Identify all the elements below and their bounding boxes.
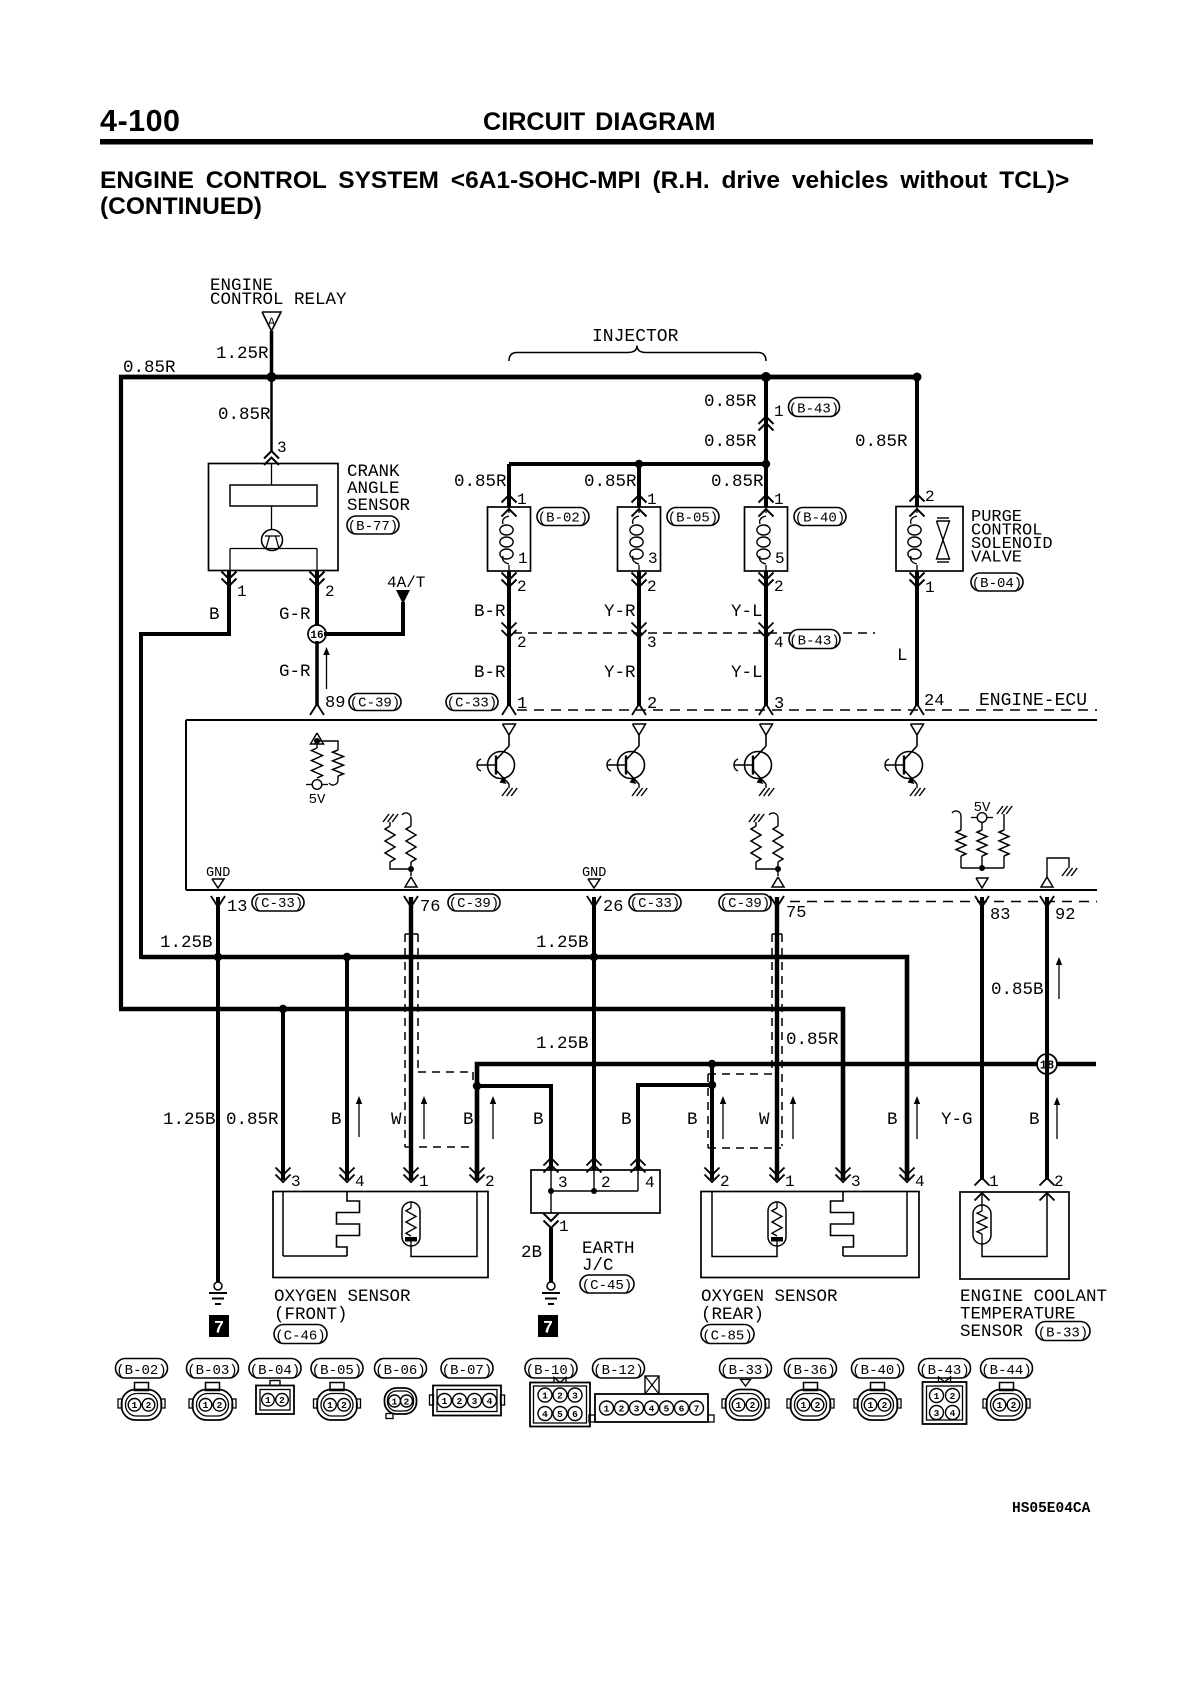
heater element rear bbox=[831, 1192, 854, 1256]
svg-text:6: 6 bbox=[572, 1409, 578, 1420]
svg-text:(CONTINUED): (CONTINUED) bbox=[100, 193, 262, 220]
svg-text:1: 1 bbox=[736, 1400, 742, 1411]
connector label (B-40) bbox=[794, 508, 846, 526]
svg-text:CIRCUIT DIAGRAM: CIRCUIT DIAGRAM bbox=[483, 108, 715, 136]
svg-text:(B-33): (B-33) bbox=[1038, 1325, 1088, 1341]
svg-text:B: B bbox=[621, 1110, 632, 1130]
svg-text:2: 2 bbox=[619, 1403, 625, 1414]
svg-text:13: 13 bbox=[227, 898, 247, 917]
svg-text:0.85B: 0.85B bbox=[991, 980, 1044, 1000]
svg-text:2: 2 bbox=[485, 1173, 495, 1191]
node 16 bbox=[308, 625, 326, 643]
svg-text:(B-04): (B-04) bbox=[972, 576, 1022, 592]
svg-text:0.85R: 0.85R bbox=[226, 1110, 279, 1130]
svg-text:ENGINE CONTROL SYSTEM <6A1-SOH: ENGINE CONTROL SYSTEM <6A1-SOHC-MPI (R.H… bbox=[100, 167, 1069, 194]
svg-text:1: 1 bbox=[265, 1395, 271, 1406]
svg-text:1: 1 bbox=[934, 1391, 940, 1402]
svg-text:26: 26 bbox=[603, 898, 623, 917]
ENGINE-ECU box bbox=[517, 709, 1097, 711]
svg-text:(B-06): (B-06) bbox=[375, 1363, 425, 1379]
svg-text:(B-10): (B-10) bbox=[526, 1363, 576, 1379]
wire B-R injector 1 to ECU bbox=[507, 571, 511, 706]
svg-text:B: B bbox=[209, 605, 220, 625]
svg-text:4: 4 bbox=[950, 1408, 956, 1419]
svg-text:16: 16 bbox=[310, 630, 323, 642]
svg-text:3: 3 bbox=[558, 1174, 568, 1192]
svg-text:2: 2 bbox=[341, 1400, 347, 1411]
ECU output transistor at pin x=509 bbox=[503, 724, 516, 735]
svg-text:5: 5 bbox=[664, 1403, 670, 1414]
svg-text:1: 1 bbox=[868, 1400, 874, 1411]
ECU output transistor at pin x=766 bbox=[760, 724, 773, 735]
svg-text:B-R: B-R bbox=[474, 663, 506, 683]
header rule bbox=[100, 139, 1093, 145]
wire 0.85R injector feed bbox=[761, 372, 771, 382]
crank sensor pin 1 bbox=[222, 572, 237, 580]
svg-text:3: 3 bbox=[851, 1173, 861, 1191]
connector label (B-05) bbox=[667, 508, 719, 526]
svg-text:1: 1 bbox=[132, 1400, 138, 1411]
svg-text:(B-40): (B-40) bbox=[852, 1363, 902, 1379]
engine coolant temperature sensor box B-33 bbox=[960, 1192, 1069, 1279]
svg-text:89: 89 bbox=[325, 694, 345, 713]
svg-text:0.85R: 0.85R bbox=[123, 358, 176, 378]
svg-text:4: 4 bbox=[487, 1396, 493, 1407]
svg-text:3: 3 bbox=[277, 439, 287, 457]
connector label C-33 bbox=[446, 694, 498, 711]
wire 0.85R to crank angle sensor bbox=[270, 377, 273, 452]
svg-text:2: 2 bbox=[647, 695, 657, 714]
svg-text:1: 1 bbox=[801, 1400, 807, 1411]
wire to 4A/T bbox=[324, 602, 403, 634]
svg-text:1.25B: 1.25B bbox=[160, 933, 213, 953]
svg-text:B-R: B-R bbox=[474, 602, 506, 622]
svg-text:(C-39): (C-39) bbox=[350, 695, 400, 711]
svg-text:(B-03): (B-03) bbox=[187, 1363, 237, 1379]
svg-text:24: 24 bbox=[924, 692, 944, 711]
svg-text:4: 4 bbox=[542, 1409, 548, 1420]
svg-text:7: 7 bbox=[543, 1318, 552, 1337]
svg-text:CONTROL RELAY: CONTROL RELAY bbox=[210, 290, 347, 310]
ECU pin 26 bbox=[587, 896, 594, 907]
wire B rear O2 pin 2 sensor ground bbox=[710, 1064, 714, 1180]
svg-text:5V: 5V bbox=[974, 800, 991, 816]
wire 0.85R top bus bbox=[119, 375, 917, 380]
svg-text:5V: 5V bbox=[309, 792, 326, 808]
svg-text:1: 1 bbox=[442, 1396, 448, 1407]
svg-text:1: 1 bbox=[774, 403, 784, 421]
wire B front O2 pin 2 sensor ground bbox=[475, 1064, 479, 1180]
svg-text:1.25B: 1.25B bbox=[536, 1034, 589, 1054]
svg-text:2: 2 bbox=[647, 578, 657, 596]
svg-text:(B-02): (B-02) bbox=[538, 510, 588, 526]
connector B-07 bbox=[441, 1359, 493, 1379]
svg-text:2: 2 bbox=[457, 1396, 463, 1407]
svg-text:3: 3 bbox=[572, 1390, 578, 1401]
purge valve symbol bbox=[937, 517, 949, 519]
svg-text:Y-L: Y-L bbox=[731, 602, 763, 622]
svg-text:0.85R: 0.85R bbox=[711, 472, 764, 492]
svg-text:(REAR): (REAR) bbox=[701, 1305, 764, 1325]
svg-text:6: 6 bbox=[679, 1403, 685, 1414]
svg-text:1: 1 bbox=[517, 695, 527, 714]
svg-text:3: 3 bbox=[472, 1396, 478, 1407]
connector label B-77 bbox=[347, 516, 399, 534]
svg-text:4: 4 bbox=[915, 1173, 925, 1191]
svg-text:0.85R: 0.85R bbox=[218, 405, 271, 425]
svg-text:2: 2 bbox=[404, 1396, 410, 1407]
injector 2 bbox=[637, 464, 641, 507]
svg-text:3: 3 bbox=[634, 1403, 640, 1414]
svg-text:75: 75 bbox=[786, 904, 806, 923]
thermistor cell bbox=[981, 1192, 983, 1205]
svg-text:(C-33): (C-33) bbox=[253, 896, 303, 912]
svg-text:B: B bbox=[533, 1110, 544, 1130]
svg-text:2: 2 bbox=[1011, 1400, 1017, 1411]
svg-text:(B-44): (B-44) bbox=[981, 1363, 1031, 1379]
svg-text:0.85R: 0.85R bbox=[454, 472, 507, 492]
svg-text:VALVE: VALVE bbox=[971, 549, 1022, 568]
earth joint connector C-45 bbox=[531, 1170, 660, 1213]
shield dashes rear O2 bbox=[781, 934, 783, 1146]
svg-text:G-R: G-R bbox=[279, 662, 311, 682]
svg-text:1: 1 bbox=[392, 1396, 398, 1407]
ECU pin 76 bbox=[404, 896, 411, 907]
connector B-43 bbox=[919, 1359, 971, 1379]
ECU pin 89 input circuit with 5V pull-up bbox=[311, 733, 324, 744]
svg-text:OXYGEN SENSOR: OXYGEN SENSOR bbox=[701, 1287, 838, 1307]
svg-text:1: 1 bbox=[542, 1390, 548, 1401]
connector B-36 bbox=[785, 1359, 837, 1379]
wire G-R crank pin2 bbox=[315, 571, 319, 627]
crank sensor pin 2 bbox=[310, 572, 325, 580]
svg-text:1.25B: 1.25B bbox=[163, 1110, 216, 1130]
svg-text:2: 2 bbox=[325, 583, 335, 601]
svg-text:HS05E04CA: HS05E04CA bbox=[1012, 1501, 1091, 1517]
svg-text:B: B bbox=[331, 1110, 342, 1130]
svg-text:3: 3 bbox=[647, 634, 657, 652]
svg-text:Y-L: Y-L bbox=[731, 663, 763, 683]
svg-text:(B-43): (B-43) bbox=[919, 1363, 969, 1379]
svg-text:(C-33): (C-33) bbox=[630, 896, 680, 912]
svg-text:0.85R: 0.85R bbox=[855, 432, 908, 452]
svg-text:7: 7 bbox=[694, 1403, 700, 1414]
connector B-33 bbox=[720, 1359, 772, 1379]
svg-text:92: 92 bbox=[1055, 906, 1075, 925]
svg-text:(B-43): (B-43) bbox=[789, 633, 839, 649]
svg-text:B: B bbox=[687, 1110, 698, 1130]
svg-text:4: 4 bbox=[774, 634, 784, 652]
svg-text:(B-05): (B-05) bbox=[668, 510, 718, 526]
ground (pin13 1.25B) bbox=[214, 1282, 222, 1290]
svg-text:1.25R: 1.25R bbox=[216, 344, 269, 364]
svg-text:2: 2 bbox=[720, 1173, 730, 1191]
heater element front bbox=[282, 1192, 284, 1257]
svg-text:1: 1 bbox=[419, 1173, 429, 1191]
ECU output transistor at pin x=639 bbox=[633, 724, 646, 735]
svg-text:83: 83 bbox=[990, 906, 1010, 925]
wire 2B earth J/C to ground bbox=[549, 1228, 553, 1282]
engine control relay terminal A bbox=[262, 312, 281, 331]
svg-text:3: 3 bbox=[774, 695, 784, 714]
wire 0.85R purge valve feed bbox=[915, 375, 919, 507]
svg-text:1: 1 bbox=[203, 1400, 209, 1411]
svg-text:B: B bbox=[463, 1110, 474, 1130]
wire 1.25B pin26 to earth J/C pin 2 bbox=[592, 897, 596, 1170]
wire 1.25B pin13 to ground bbox=[216, 897, 220, 1282]
wire B to earth J/C pin 4 bbox=[638, 1085, 712, 1170]
svg-text:1: 1 bbox=[989, 1173, 999, 1191]
svg-text:(C-39): (C-39) bbox=[720, 896, 770, 912]
svg-text:2: 2 bbox=[882, 1400, 888, 1411]
injector brace bbox=[509, 346, 766, 362]
svg-text:J/C: J/C bbox=[582, 1256, 614, 1276]
svg-text:2: 2 bbox=[146, 1400, 152, 1411]
connector B-06 bbox=[375, 1359, 427, 1379]
wire B to earth J/C pin 3 bbox=[477, 1086, 551, 1170]
svg-text:2: 2 bbox=[950, 1391, 956, 1402]
svg-text:(FRONT): (FRONT) bbox=[274, 1305, 348, 1325]
node 18 bbox=[1037, 1054, 1057, 1074]
wire 0.85B / B ECT pin 2 bbox=[1045, 897, 1049, 1180]
injector 1 bbox=[507, 464, 511, 507]
svg-text:5: 5 bbox=[775, 550, 785, 568]
svg-text:1: 1 bbox=[559, 1218, 569, 1236]
5V supply bbox=[312, 780, 322, 790]
svg-text:OXYGEN SENSOR: OXYGEN SENSOR bbox=[274, 1287, 411, 1307]
svg-text:ENGINE-ECU: ENGINE-ECU bbox=[979, 691, 1087, 711]
svg-text:(B-05): (B-05) bbox=[312, 1363, 362, 1379]
connector B-05 bbox=[311, 1359, 363, 1379]
connector B-44 bbox=[981, 1359, 1033, 1379]
sensing cell rear bbox=[768, 1202, 786, 1246]
connector label (B-02) bbox=[537, 508, 589, 526]
connector B-40 bbox=[852, 1359, 904, 1379]
svg-text:(B-07): (B-07) bbox=[442, 1363, 492, 1379]
svg-text:Y-R: Y-R bbox=[604, 602, 636, 622]
svg-text:1: 1 bbox=[518, 550, 528, 568]
ECU pin 75 resistor pair bbox=[749, 814, 755, 822]
svg-text:(C-39): (C-39) bbox=[449, 896, 499, 912]
ECU pin 75 bbox=[719, 894, 771, 911]
wire B front O2 pin 4 heater return bbox=[345, 957, 349, 1180]
shield dashes front O2 bbox=[404, 934, 406, 1147]
wire Y-L injector 3 to ECU bbox=[764, 571, 768, 706]
svg-text:2: 2 bbox=[517, 578, 527, 596]
oxygen sensor rear box C-85 bbox=[701, 1192, 919, 1278]
svg-text:(B-02): (B-02) bbox=[116, 1363, 166, 1379]
svg-text:Y-R: Y-R bbox=[604, 663, 636, 683]
svg-text:SENSOR: SENSOR bbox=[960, 1322, 1024, 1342]
svg-text:2: 2 bbox=[774, 578, 784, 596]
svg-text:(B-36): (B-36) bbox=[785, 1363, 835, 1379]
connector B-04 bbox=[249, 1359, 301, 1379]
svg-text:1: 1 bbox=[925, 579, 935, 597]
ECU pin 13 bbox=[211, 896, 218, 907]
svg-text:2: 2 bbox=[750, 1400, 756, 1411]
connector B-43 dashed line bbox=[513, 632, 875, 634]
node relay junction bbox=[267, 372, 277, 382]
svg-text:(C-85): (C-85) bbox=[702, 1328, 752, 1344]
wire L purge valve to ECU pin 24 bbox=[915, 571, 919, 706]
connector B-02 bbox=[116, 1359, 168, 1379]
svg-text:(B-77): (B-77) bbox=[348, 519, 398, 535]
svg-text:0.85R: 0.85R bbox=[584, 472, 637, 492]
wire 0.85R to front O2 pin 3 bbox=[281, 1009, 285, 1180]
ECU output transistor at pin x=917 bbox=[911, 724, 924, 735]
oxygen sensor front box C-46 bbox=[273, 1192, 488, 1278]
ECU pin 92 bbox=[1040, 896, 1047, 907]
svg-text:3: 3 bbox=[934, 1408, 940, 1419]
svg-text:W: W bbox=[759, 1110, 770, 1130]
svg-text:1.25B: 1.25B bbox=[536, 933, 589, 953]
svg-text:(B-12): (B-12) bbox=[593, 1363, 643, 1379]
svg-text:1: 1 bbox=[604, 1403, 610, 1414]
wire B crank pin1 to ground bus bbox=[141, 571, 229, 959]
svg-text:1: 1 bbox=[237, 583, 247, 601]
wire G-R to ECU pin 89 bbox=[315, 641, 319, 706]
svg-text:B: B bbox=[887, 1110, 898, 1130]
svg-text:(C-33): (C-33) bbox=[447, 695, 497, 711]
ground (earth J/C 2B) bbox=[547, 1282, 555, 1290]
connector B-03 bbox=[187, 1359, 239, 1379]
injector 3 bbox=[764, 464, 768, 507]
svg-text:2: 2 bbox=[557, 1390, 563, 1401]
svg-text:2: 2 bbox=[815, 1400, 821, 1411]
connector B-10 bbox=[525, 1359, 577, 1379]
wire Y-G ECT pin 1 bbox=[980, 897, 984, 1180]
svg-text:3: 3 bbox=[648, 550, 658, 568]
svg-text:0.85R: 0.85R bbox=[786, 1030, 839, 1050]
svg-text:(C-46): (C-46) bbox=[275, 1328, 325, 1344]
svg-text:(B-33): (B-33) bbox=[720, 1363, 770, 1379]
wire 0.85R heater bus (bus2) bbox=[119, 1009, 843, 1180]
svg-text:76: 76 bbox=[420, 898, 440, 917]
sensing cell front bbox=[402, 1202, 420, 1246]
wire W rear O2 signal (pin 75) bbox=[775, 897, 779, 1180]
svg-text:4: 4 bbox=[649, 1403, 655, 1414]
connector label C-39 bbox=[349, 694, 401, 711]
svg-text:B: B bbox=[1029, 1110, 1040, 1130]
svg-text:4-100: 4-100 bbox=[100, 104, 181, 138]
svg-text:4: 4 bbox=[645, 1174, 655, 1192]
svg-text:Y-G: Y-G bbox=[941, 1110, 973, 1130]
svg-text:1: 1 bbox=[327, 1400, 333, 1411]
svg-text:7: 7 bbox=[214, 1318, 223, 1337]
svg-text:4A/T: 4A/T bbox=[387, 574, 425, 592]
purge control solenoid valve box bbox=[896, 507, 963, 572]
svg-text:0.85R: 0.85R bbox=[704, 432, 757, 452]
wire 0.85R left border bbox=[119, 375, 123, 1009]
svg-text:2: 2 bbox=[517, 634, 527, 652]
wire 1.25B ground bus (bus1) bbox=[141, 957, 907, 1180]
svg-text:(B-40): (B-40) bbox=[795, 510, 845, 526]
svg-text:4: 4 bbox=[355, 1173, 365, 1191]
svg-text:W: W bbox=[391, 1110, 402, 1130]
ECU pin 76 resistor pair bbox=[383, 814, 389, 822]
svg-text:2: 2 bbox=[601, 1174, 611, 1192]
svg-text:2: 2 bbox=[925, 488, 935, 506]
svg-text:A: A bbox=[268, 316, 276, 330]
connector B-12 bbox=[593, 1359, 645, 1379]
wire Y-R injector 2 to ECU bbox=[637, 571, 641, 706]
connector label B-04 bbox=[971, 573, 1023, 591]
svg-text:(B-04): (B-04) bbox=[250, 1363, 300, 1379]
svg-text:SENSOR: SENSOR bbox=[347, 496, 411, 516]
svg-text:INJECTOR: INJECTOR bbox=[592, 327, 679, 347]
ECU pin 83 bbox=[975, 896, 982, 907]
svg-text:L: L bbox=[897, 646, 908, 666]
svg-text:(B-43): (B-43) bbox=[789, 401, 839, 417]
wire 1.25B sensor ground bus bbox=[477, 1064, 1096, 1180]
svg-text:5: 5 bbox=[557, 1409, 563, 1420]
wire 1.25R relay to bus bbox=[270, 331, 274, 377]
svg-text:1: 1 bbox=[997, 1400, 1003, 1411]
crank angle sensor box B-77 bbox=[209, 464, 339, 571]
wire 0.85R injector sub-bus bbox=[509, 462, 766, 466]
svg-text:2: 2 bbox=[217, 1400, 223, 1411]
ECU pin 92 internal ground link bbox=[1041, 877, 1053, 887]
wire W front O2 signal (pin 76) bbox=[409, 897, 413, 1180]
svg-text:(C-45): (C-45) bbox=[582, 1278, 632, 1294]
svg-text:2: 2 bbox=[1054, 1173, 1064, 1191]
svg-text:G-R: G-R bbox=[279, 605, 311, 625]
svg-text:2B: 2B bbox=[521, 1243, 542, 1263]
svg-text:0.85R: 0.85R bbox=[704, 392, 757, 412]
svg-text:1: 1 bbox=[785, 1173, 795, 1191]
svg-text:2: 2 bbox=[279, 1395, 285, 1406]
svg-text:3: 3 bbox=[291, 1173, 301, 1191]
